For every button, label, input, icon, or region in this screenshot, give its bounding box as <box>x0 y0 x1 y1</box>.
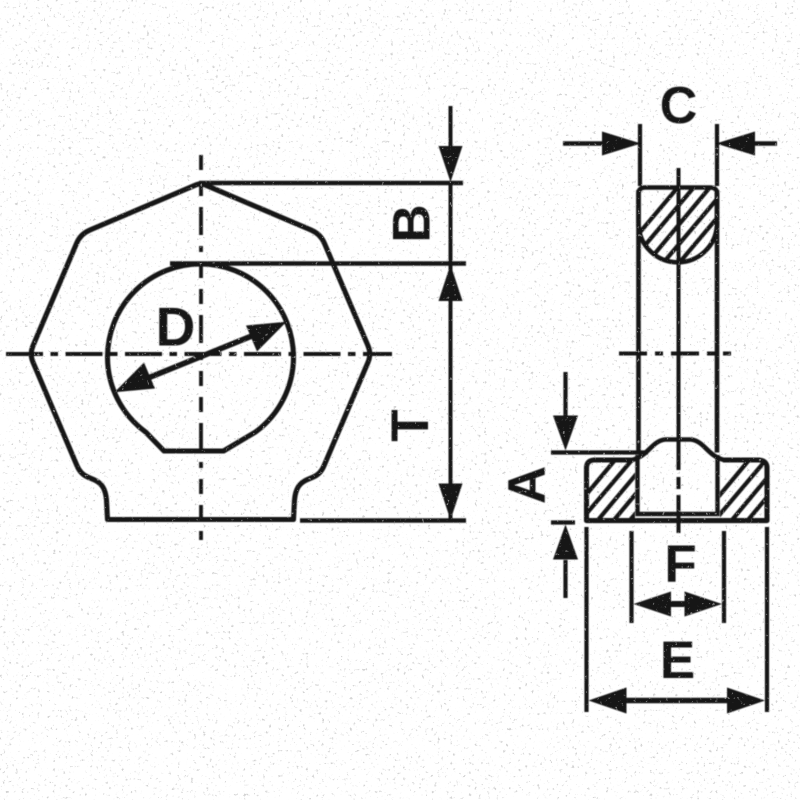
dimension C extension lines <box>640 124 717 186</box>
label B <box>383 204 442 242</box>
hatch lines in ring section <box>604 180 782 275</box>
extension line from top of eye circle (B/T boundary) <box>170 261 466 265</box>
dimension E extension lines <box>587 527 768 712</box>
label D <box>156 296 196 358</box>
dimension B line and arrow <box>439 106 463 264</box>
dimension F extension lines <box>632 531 725 623</box>
dome (spherical washer face) <box>632 440 724 461</box>
ring cross-section blob (hatched) <box>639 188 718 263</box>
label T <box>381 409 440 441</box>
front view outline (octagonal eye nut body with base flange) <box>31 184 370 520</box>
diameter arrow for D <box>115 322 287 393</box>
right view vertical centerline <box>677 168 681 533</box>
threaded hole in base <box>636 455 720 514</box>
label C <box>660 77 698 135</box>
dimension A extension lines <box>551 453 648 523</box>
dimension A line with arrows <box>553 372 578 598</box>
right view horizontal centerline <box>619 352 731 356</box>
dimension T line and arrows <box>439 265 463 521</box>
ring shank outline lines <box>639 190 718 453</box>
label A <box>498 466 557 504</box>
front view eye hole (circle with flattened bottom) <box>108 264 294 451</box>
label E <box>660 631 695 690</box>
extension line from bottom of body (bottom of T) <box>300 518 466 522</box>
label F <box>664 535 696 594</box>
hatch lines in base right section <box>694 454 800 526</box>
front view vertical centerline <box>199 155 203 540</box>
dimension F arrows <box>634 592 723 617</box>
extension line from apex (top of B) <box>199 181 463 185</box>
front view horizontal centerline <box>6 352 392 356</box>
dimension E line with arrows <box>589 688 766 714</box>
dimension C line with arrows <box>563 132 777 156</box>
base outline <box>587 460 768 521</box>
hatch lines in base left section <box>560 454 686 526</box>
